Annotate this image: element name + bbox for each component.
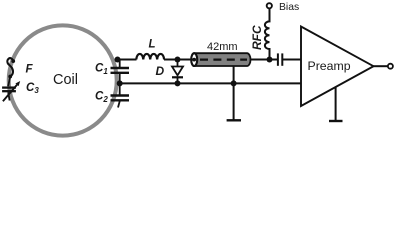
svg-text:D: D [156, 64, 165, 78]
ground wire under preamp [335, 87, 337, 120]
svg-text:42mm: 42mm [207, 41, 238, 53]
svg-text:Preamp: Preamp [308, 59, 351, 73]
wire top rail to L [118, 59, 137, 61]
svg-text:Bias: Bias [279, 2, 299, 13]
node C1/C2 junction [117, 80, 123, 86]
svg-text:Coil: Coil [53, 72, 78, 88]
ground wire under coax [233, 66, 235, 120]
node RFC junction [267, 57, 273, 63]
node feed top [11, 59, 15, 63]
coupling capacitor [278, 53, 301, 65]
node diode top [175, 57, 181, 63]
op-amp preamp triangle [301, 27, 374, 107]
capacitor C2 [111, 83, 130, 107]
wire junction down to C1 [119, 60, 121, 68]
node feed bottom [8, 75, 12, 79]
output terminal [388, 64, 393, 69]
coil circle [9, 25, 117, 135]
coax stub 42mm body [191, 53, 250, 66]
wire into coax [186, 59, 195, 61]
capacitor C1 [111, 68, 130, 83]
node diode bottom [175, 80, 181, 86]
ground symbol under coax [227, 119, 241, 121]
diode D [172, 60, 183, 84]
terminal Bias [267, 3, 272, 8]
inductor L [136, 54, 164, 60]
wire coax to cap [251, 59, 278, 61]
svg-text:RFC: RFC [250, 25, 264, 50]
output wire [374, 65, 388, 67]
node top junction [115, 57, 121, 63]
svg-text:L: L [149, 39, 156, 51]
wire feed squiggle [7, 58, 13, 76]
wire squiggle to C3 [8, 77, 10, 87]
wire L to coax [164, 59, 192, 61]
inductor RFC [265, 9, 270, 60]
svg-text:F: F [26, 63, 34, 75]
capacitor C3 (variable) [2, 81, 20, 101]
ground symbol under preamp [329, 120, 343, 122]
wire middle rail [120, 82, 301, 84]
node rail/ground junction [231, 80, 237, 86]
